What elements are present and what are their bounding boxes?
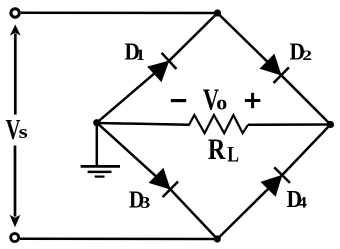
polarity plus sign (Vo positive) [245, 93, 260, 108]
resistor RL (zigzag) [183, 115, 248, 133]
source Vs arrow up (polarity arrow) [10, 25, 21, 115]
ground (at left node) [81, 123, 120, 177]
wire bridge edge: top node to right node [218, 13, 331, 125]
terminal T1 (top-left input) [11, 9, 19, 17]
wire top: terminal T1 to top node [21, 11, 218, 14]
svg-text:s: s [19, 121, 28, 142]
wire bridge edge: bottom node to right node [217, 125, 330, 240]
svg-text:L: L [227, 143, 239, 167]
wire bridge edge: left node to bottom node [97, 123, 218, 239]
source Vs arrow down (polarity arrow) [10, 146, 21, 228]
diode D2 (top node to right node) [259, 53, 289, 83]
diode D1 (left node to top node) [147, 52, 177, 82]
svg-text:3: 3 [141, 193, 151, 212]
svg-text:1: 1 [136, 46, 145, 64]
diode D3 (left node to bottom node) [148, 167, 178, 197]
diode D4 (bottom node to right node) [260, 167, 290, 197]
svg-text:2: 2 [302, 47, 312, 63]
node top (junction dot) [214, 9, 221, 16]
wire bottom: terminal T2 to bottom node [20, 237, 217, 240]
node left (junction dot) [93, 119, 100, 126]
svg-text:R: R [208, 133, 226, 166]
node bottom (junction dot) [214, 235, 221, 242]
wire mid: resistor to right node [248, 123, 331, 126]
svg-text:4: 4 [298, 194, 308, 212]
wire mid: left node to resistor [97, 123, 189, 125]
svg-text:o: o [216, 91, 227, 114]
wire bridge edge: left node to top node [97, 13, 218, 123]
node right (junction dot) [327, 121, 334, 128]
polarity minus sign (Vo negative) [171, 99, 186, 102]
terminal T2 (bottom-left input) [11, 234, 19, 242]
